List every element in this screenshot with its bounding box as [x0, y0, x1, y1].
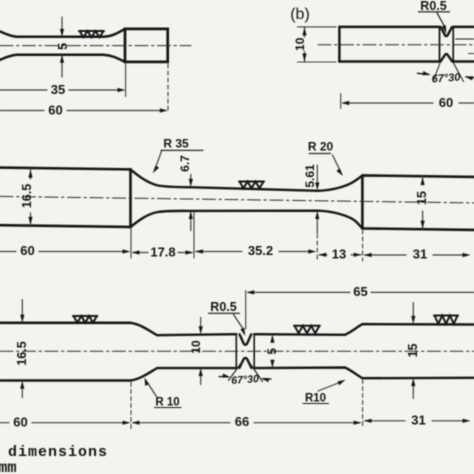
svg-text:31: 31: [413, 247, 427, 262]
svg-text:5: 5: [267, 348, 279, 355]
svg-text:(b): (b): [290, 6, 310, 23]
svg-text:10: 10: [189, 340, 203, 354]
svg-text:R0.5: R0.5: [210, 300, 236, 314]
svg-text:65: 65: [353, 284, 367, 299]
svg-text:R 20: R 20: [308, 140, 334, 154]
svg-text:5: 5: [56, 43, 70, 50]
svg-text:6.7: 6.7: [178, 155, 192, 172]
svg-text:35: 35: [51, 82, 65, 97]
svg-text:67°30: 67°30: [231, 373, 259, 387]
svg-text:60: 60: [439, 95, 453, 110]
svg-text:60: 60: [13, 415, 27, 430]
svg-text:66: 66: [235, 414, 249, 429]
svg-text:60: 60: [20, 243, 34, 258]
svg-text:16.5: 16.5: [20, 184, 34, 208]
svg-text:16.5: 16.5: [15, 341, 29, 365]
svg-text:R 10: R 10: [155, 397, 179, 409]
svg-text:R10: R10: [305, 393, 326, 405]
svg-text:15: 15: [415, 191, 429, 205]
svg-text:60: 60: [48, 102, 62, 117]
svg-text:15: 15: [406, 344, 420, 358]
svg-text:mm: mm: [0, 459, 17, 474]
svg-text:17.8: 17.8: [150, 244, 175, 259]
svg-text:13: 13: [332, 246, 346, 261]
svg-text:R 35: R 35: [163, 137, 189, 151]
svg-text:dimensions: dimensions: [8, 444, 108, 461]
svg-text:5.61: 5.61: [303, 164, 317, 188]
svg-text:10: 10: [293, 37, 307, 51]
svg-text:R0.5: R0.5: [420, 0, 446, 13]
svg-text:31: 31: [411, 412, 425, 427]
svg-text:35.2: 35.2: [248, 243, 273, 258]
svg-text:67°30: 67°30: [431, 71, 462, 85]
